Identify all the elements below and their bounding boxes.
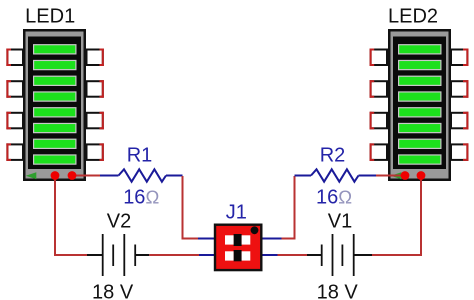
svg-text:V2: V2 — [107, 211, 131, 233]
svg-text:J1: J1 — [226, 202, 247, 224]
svg-text:16Ω: 16Ω — [316, 186, 352, 208]
svg-text:LED1: LED1 — [25, 5, 75, 27]
svg-text:V1: V1 — [328, 211, 352, 233]
svg-text:R2: R2 — [320, 145, 346, 167]
svg-text:18 V: 18 V — [317, 282, 359, 300]
svg-text:18 V: 18 V — [92, 282, 134, 300]
svg-text:LED2: LED2 — [388, 5, 438, 27]
svg-text:16Ω: 16Ω — [123, 186, 159, 208]
svg-text:R1: R1 — [127, 145, 153, 167]
